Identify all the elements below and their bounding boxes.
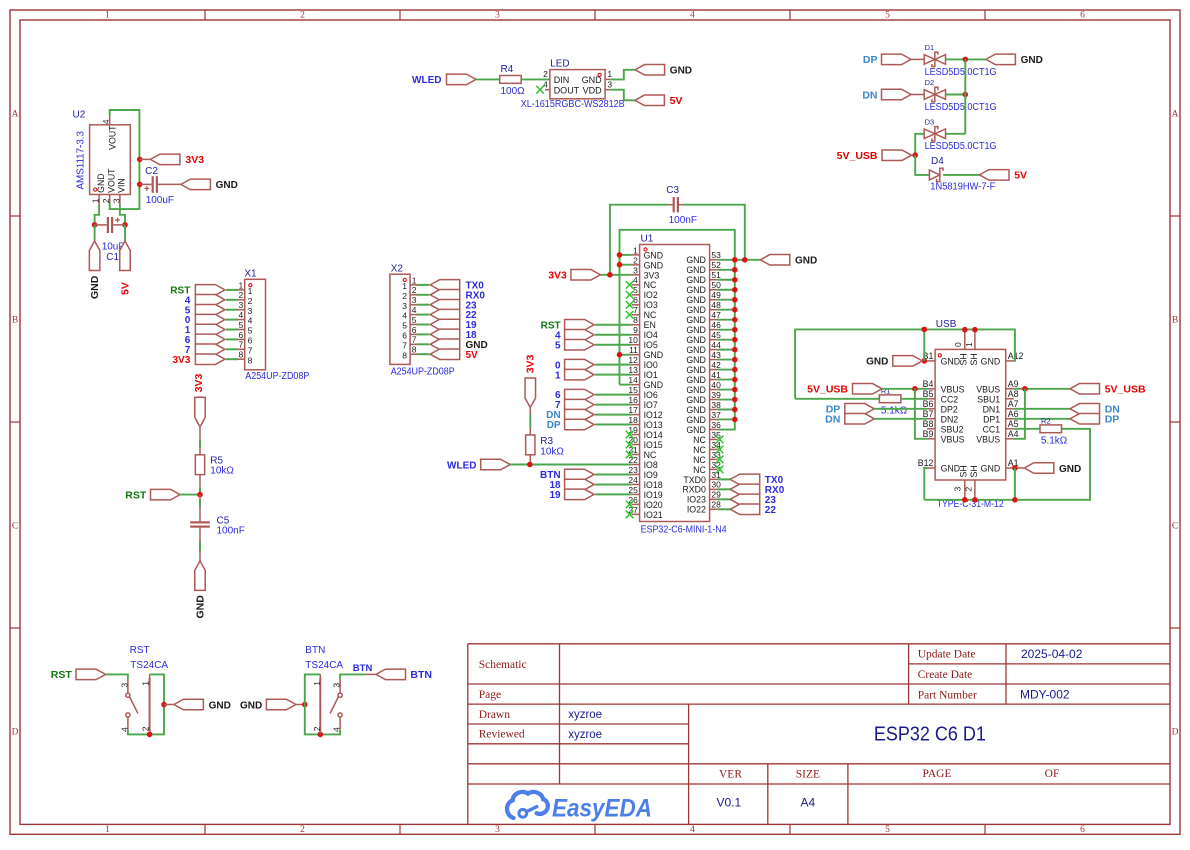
svg-text:2: 2	[101, 198, 111, 203]
svg-text:V0.1: V0.1	[717, 795, 742, 809]
EasyEDA logo	[507, 792, 652, 822]
USB pins with designators	[918, 330, 1024, 500]
svg-text:IO13: IO13	[644, 420, 663, 430]
X1 pins with numbers	[237, 280, 253, 365]
X2 net labels TX0 RX0 23 22 19 18 GND 5V	[466, 281, 488, 361]
wire A9 to 5V_USB flag	[1014, 388, 1070, 390]
svg-text:IO19: IO19	[644, 490, 663, 500]
svg-text:39: 39	[711, 390, 721, 400]
svg-text:IO1: IO1	[644, 370, 658, 380]
wire RST flag to switch pin3	[106, 674, 128, 679]
svg-text:TS24CA: TS24CA	[305, 660, 343, 671]
svg-text:Create Date: Create Date	[918, 669, 973, 681]
svg-text:7: 7	[238, 340, 243, 350]
svg-text:9: 9	[633, 325, 638, 335]
svg-text:GND: GND	[194, 595, 206, 619]
USB connector body TYPE-C-31-M-12	[935, 349, 1006, 480]
svg-text:10kΩ: 10kΩ	[210, 466, 234, 477]
wire WLED to R4	[476, 78, 500, 80]
svg-text:5: 5	[248, 326, 253, 336]
svg-text:GND: GND	[686, 325, 706, 335]
svg-text:1: 1	[607, 69, 612, 79]
RST net flag at divider	[125, 489, 180, 501]
svg-text:A4: A4	[1008, 429, 1019, 439]
svg-text:GND: GND	[686, 355, 706, 365]
svg-text:1: 1	[91, 198, 101, 203]
svg-text:IO21: IO21	[644, 510, 663, 520]
svg-text:12: 12	[628, 355, 638, 365]
svg-text:NC: NC	[693, 455, 706, 465]
svg-text:CC2: CC2	[941, 394, 959, 404]
svg-text:53: 53	[711, 250, 721, 260]
wire 3V3 flag to R3	[529, 408, 531, 436]
wire USB GND top bus	[795, 329, 1015, 398]
node RST switch pin2 junction	[147, 732, 153, 738]
U1 pins with numbers and names	[628, 245, 721, 519]
connector X1 A254UP-ZD08P body	[245, 279, 266, 370]
svg-text:WLED: WLED	[447, 460, 476, 471]
svg-text:D2: D2	[925, 78, 935, 87]
svg-text:IO6: IO6	[644, 390, 658, 400]
wire B12 to bottom bus	[924, 468, 927, 500]
diode D3 LESD5D5.0CT1G	[924, 127, 945, 141]
node B1 GND junction	[922, 358, 928, 364]
svg-text:GND: GND	[96, 173, 106, 193]
svg-text:2: 2	[300, 11, 305, 21]
3V3 net flag above R3	[525, 354, 537, 407]
wire D3 to 5V_USB	[915, 134, 924, 155]
svg-text:X2: X2	[391, 264, 404, 275]
svg-text:GND: GND	[795, 256, 817, 267]
svg-text:VOUT: VOUT	[106, 168, 116, 193]
svg-text:47: 47	[711, 310, 721, 320]
resistor R2 5.1kΩ	[1040, 425, 1062, 433]
net flag stack at U1 TXD0/RXD0/IO23/IO22	[730, 474, 760, 514]
svg-text:2: 2	[412, 285, 417, 295]
svg-text:4: 4	[101, 119, 111, 124]
svg-text:C: C	[12, 522, 18, 532]
svg-text:DIN: DIN	[554, 75, 570, 85]
wire C3 left to 3V3	[610, 205, 669, 275]
svg-text:IO20: IO20	[644, 500, 663, 510]
svg-text:3: 3	[412, 295, 417, 305]
svg-text:B7: B7	[923, 409, 934, 419]
svg-text:NC: NC	[644, 310, 657, 320]
svg-text:48: 48	[711, 300, 721, 310]
svg-text:A4: A4	[801, 795, 816, 809]
svg-text:NC: NC	[693, 465, 706, 475]
GND net flag at USB B1	[866, 356, 922, 368]
svg-text:GND: GND	[686, 385, 706, 395]
svg-text:1: 1	[238, 280, 243, 290]
svg-text:IO22: IO22	[687, 505, 706, 515]
wire A5 to R2	[1014, 428, 1040, 430]
svg-text:VOUT: VOUT	[107, 125, 117, 150]
wire 3V3 flag to R5	[199, 427, 201, 455]
svg-text:4: 4	[690, 825, 695, 835]
svg-text:44: 44	[711, 340, 721, 350]
wire R1 to B5	[901, 398, 927, 400]
svg-text:3: 3	[952, 487, 962, 492]
svg-text:6: 6	[1080, 11, 1085, 21]
svg-text:Update Date: Update Date	[918, 649, 976, 661]
svg-text:25: 25	[628, 485, 638, 495]
svg-text:SH: SH	[958, 353, 968, 365]
svg-text:GND: GND	[644, 250, 664, 260]
svg-text:8: 8	[402, 350, 407, 360]
svg-text:GND: GND	[686, 295, 706, 305]
svg-text:IO18: IO18	[644, 480, 663, 490]
svg-text:4: 4	[412, 305, 417, 315]
no-connect marks on U1	[626, 281, 724, 518]
svg-text:IO7: IO7	[644, 400, 658, 410]
svg-text:B9: B9	[923, 429, 934, 439]
wire WLED to U1 pin22	[510, 464, 631, 466]
wire DN to D2	[911, 94, 924, 96]
svg-text:RST: RST	[51, 669, 73, 681]
svg-text:36: 36	[711, 420, 721, 430]
svg-text:RST: RST	[125, 489, 147, 501]
svg-text:4: 4	[332, 727, 342, 732]
svg-text:GND: GND	[941, 464, 961, 474]
GND net flag at BTN switch	[240, 699, 296, 711]
wire 5V_USB to B4	[882, 388, 927, 390]
svg-text:DN: DN	[825, 414, 840, 426]
wires U1 flags to pins 15ff	[595, 395, 632, 425]
node RST junction	[197, 492, 203, 498]
svg-text:GND: GND	[686, 315, 706, 325]
wire LED VDD pin to 5V flag	[610, 90, 635, 101]
svg-text:TS24CA: TS24CA	[130, 660, 168, 671]
svg-text:8: 8	[412, 345, 417, 355]
svg-text:3: 3	[111, 198, 121, 203]
wire A12 to top bus	[1014, 360, 1015, 362]
wire A1 to GND flag	[1014, 467, 1025, 469]
svg-text:DP: DP	[547, 420, 561, 431]
3V3 net flag above R5	[193, 373, 205, 426]
resistor R3 10kΩ	[526, 435, 535, 455]
svg-text:23: 23	[628, 465, 638, 475]
node B4 junction	[912, 386, 918, 392]
svg-text:2: 2	[633, 255, 638, 265]
svg-text:A: A	[1172, 110, 1179, 120]
wire GND flag to BTN switch	[296, 704, 305, 706]
5V_USB net flag at B4	[807, 384, 882, 396]
svg-text:GND: GND	[686, 345, 706, 355]
net flag stack at U1 pins 15ff	[565, 389, 595, 429]
svg-text:5: 5	[885, 11, 890, 21]
svg-text:5.1kΩ: 5.1kΩ	[1041, 436, 1068, 447]
wire A9 to A4 VBUS tie	[1014, 389, 1025, 439]
svg-text:100nF: 100nF	[669, 215, 697, 226]
svg-text:11: 11	[629, 345, 638, 355]
svg-text:3V3: 3V3	[548, 270, 567, 282]
svg-text:XL-1615RGBC-WS2812B: XL-1615RGBC-WS2812B	[521, 99, 625, 110]
wire C3 right to GND	[683, 205, 745, 260]
svg-text:IO23: IO23	[687, 495, 706, 505]
svg-text:NC: NC	[693, 445, 706, 455]
WLED net flag at R3	[447, 459, 510, 471]
svg-text:14: 14	[628, 375, 638, 385]
svg-text:B: B	[12, 316, 18, 326]
wire left loop to R1	[795, 398, 879, 400]
3V3 net flag at U2 output	[140, 154, 205, 166]
svg-text:SH: SH	[958, 465, 968, 477]
svg-text:A254UP-ZD08P: A254UP-ZD08P	[245, 371, 309, 382]
diode D4 1N5819HW-7-F	[929, 168, 943, 181]
svg-text:42: 42	[711, 360, 721, 370]
svg-text:DN1: DN1	[983, 404, 1001, 414]
wire DP to B6	[874, 408, 927, 410]
svg-text:29: 29	[711, 490, 721, 500]
svg-text:5: 5	[412, 315, 417, 325]
svg-text:4: 4	[238, 310, 243, 320]
svg-text:2: 2	[238, 290, 243, 300]
wire USB bottom bus	[924, 429, 1090, 500]
svg-text:2025-04-02: 2025-04-02	[1021, 647, 1083, 661]
svg-text:B8: B8	[923, 419, 934, 429]
net flag stack at U1 pins 12ff	[565, 359, 595, 379]
svg-text:22: 22	[765, 505, 777, 516]
svg-text:GND: GND	[686, 425, 706, 435]
svg-text:D: D	[12, 728, 19, 738]
svg-text:U1: U1	[641, 234, 654, 245]
title block	[468, 644, 1170, 825]
svg-text:3: 3	[238, 300, 243, 310]
svg-text:7: 7	[412, 335, 417, 345]
BTN net flag	[376, 669, 432, 681]
wires X2 pins to flags	[417, 285, 429, 354]
svg-text:0: 0	[953, 342, 963, 347]
svg-text:3V3: 3V3	[644, 270, 660, 280]
node top bus B1 tap	[922, 327, 928, 333]
svg-text:B12: B12	[918, 458, 934, 468]
svg-text:13: 13	[628, 365, 638, 375]
svg-text:Part Number: Part Number	[918, 689, 977, 701]
svg-text:IO15: IO15	[644, 440, 663, 450]
svg-text:C1: C1	[106, 252, 119, 263]
5V net flag at D4	[980, 170, 1028, 182]
wires U1 flags to pins 12ff	[595, 365, 632, 375]
svg-text:IO4: IO4	[644, 330, 658, 340]
connector X2 A254UP-ZD08P body	[390, 274, 410, 364]
svg-text:IO5: IO5	[644, 340, 658, 350]
svg-text:2: 2	[300, 825, 305, 835]
svg-text:DP2: DP2	[941, 404, 958, 414]
svg-text:A6: A6	[1008, 409, 1019, 419]
svg-text:GND: GND	[670, 66, 692, 77]
svg-text:DP: DP	[863, 54, 878, 66]
wire D3 to GND rail	[946, 133, 966, 135]
svg-text:GND: GND	[686, 405, 706, 415]
svg-text:5V: 5V	[119, 282, 131, 295]
svg-text:GND: GND	[209, 700, 231, 711]
node 5V_USB junction	[912, 152, 918, 158]
svg-text:GND: GND	[644, 380, 664, 390]
svg-text:GND: GND	[686, 265, 706, 275]
svg-text:GND: GND	[686, 365, 706, 375]
svg-text:7: 7	[633, 305, 638, 315]
DP net flag at A6	[1070, 414, 1119, 426]
svg-text:5V_USB: 5V_USB	[837, 150, 878, 162]
svg-text:xyzroe: xyzroe	[568, 729, 602, 741]
svg-text:1: 1	[312, 681, 322, 686]
svg-text:NC: NC	[644, 280, 657, 290]
svg-text:D4: D4	[931, 156, 944, 167]
DP net flag at B6	[826, 404, 875, 416]
svg-text:GND: GND	[941, 356, 961, 366]
svg-text:38: 38	[711, 400, 721, 410]
svg-text:2: 2	[248, 296, 253, 306]
svg-text:31: 31	[711, 470, 721, 480]
diode D2 LESD5D5.0CT1G	[924, 87, 945, 101]
capacitor C3 100nF	[669, 197, 684, 212]
svg-text:18: 18	[628, 415, 638, 425]
svg-text:5: 5	[885, 825, 890, 835]
svg-text:6: 6	[633, 295, 638, 305]
svg-text:Reviewed: Reviewed	[479, 729, 525, 741]
svg-text:5: 5	[238, 320, 243, 330]
svg-text:DOUT: DOUT	[554, 86, 580, 96]
svg-text:10kΩ: 10kΩ	[540, 446, 564, 457]
node SH3 junction	[962, 497, 968, 503]
svg-text:LESD5D5.0CT1G: LESD5D5.0CT1G	[925, 67, 997, 78]
svg-text:USB: USB	[936, 319, 957, 330]
wires U1 flags to pins 23ff	[595, 474, 632, 494]
svg-text:MDY-002: MDY-002	[1020, 688, 1070, 702]
wire C1 right to 5V	[124, 225, 126, 241]
DN net flag at D2	[862, 89, 911, 101]
svg-text:1: 1	[105, 11, 110, 21]
svg-text:6: 6	[1080, 825, 1085, 835]
svg-text:D3: D3	[925, 117, 935, 126]
svg-text:VDD: VDD	[583, 86, 603, 96]
svg-text:A254UP-ZD08P: A254UP-ZD08P	[391, 366, 455, 377]
svg-text:3: 3	[332, 683, 342, 688]
svg-text:DP1: DP1	[983, 414, 1000, 424]
DN net flag at A7	[1070, 404, 1120, 416]
no-connect on LED DOUT	[536, 86, 544, 94]
svg-text:xyzroe: xyzroe	[568, 709, 602, 721]
svg-text:5V: 5V	[466, 350, 479, 361]
svg-text:40: 40	[711, 380, 721, 390]
wire C5 to GND flag	[199, 528, 201, 561]
svg-text:VIN: VIN	[116, 178, 126, 193]
svg-text:BTN: BTN	[305, 645, 325, 656]
svg-text:PAGE: PAGE	[923, 768, 952, 780]
svg-text:50: 50	[711, 280, 721, 290]
wire 5V input and VOUT loop of U2	[110, 110, 140, 209]
svg-text:TYPE-C-31-M-12: TYPE-C-31-M-12	[937, 499, 1004, 510]
svg-text:5: 5	[633, 285, 638, 295]
svg-text:D: D	[1172, 728, 1179, 738]
svg-text:4: 4	[248, 316, 253, 326]
svg-text:BTN: BTN	[353, 663, 373, 674]
svg-text:5: 5	[402, 321, 407, 331]
wire B4 to B9 VBUS tie	[915, 389, 927, 439]
wire A6 to DP flag	[1014, 418, 1070, 420]
svg-text:GND: GND	[582, 75, 603, 85]
svg-text:GND: GND	[686, 395, 706, 405]
node A9 junction	[1022, 386, 1028, 392]
wire RST flag to node	[180, 494, 200, 496]
switch SW1 TS24CA (RST)	[119, 674, 150, 734]
svg-text:RXD0: RXD0	[682, 485, 706, 495]
svg-text:5.1kΩ: 5.1kΩ	[881, 405, 908, 416]
wire C1 left to GND	[94, 225, 96, 241]
svg-text:GND: GND	[686, 255, 706, 265]
svg-text:LED: LED	[550, 59, 569, 70]
svg-text:4: 4	[633, 275, 638, 285]
node A1 junction	[1012, 465, 1018, 471]
net flag stack at U1 pins 8ff	[565, 320, 595, 350]
svg-text:GND: GND	[686, 375, 706, 385]
node SH1 junction	[972, 327, 978, 333]
wire to BTN flag	[365, 673, 376, 675]
GND net flag at RST switch	[174, 699, 231, 711]
GND net flag right of U1	[760, 255, 817, 267]
svg-text:GND: GND	[686, 335, 706, 345]
node C1 left junction	[92, 222, 98, 228]
svg-text:NC: NC	[693, 435, 706, 445]
svg-text:A: A	[12, 110, 19, 120]
wire BTN switch pin3 to flag	[340, 674, 365, 679]
svg-text:CC1: CC1	[983, 424, 1001, 434]
wire GND rail D1-D3	[964, 59, 966, 133]
node 3V3 junction at U2 output	[137, 157, 143, 163]
wire LED GND pin to flag	[610, 70, 635, 80]
node GND junction at C2	[137, 182, 143, 188]
5V net flag below C1	[119, 241, 131, 295]
svg-text:37: 37	[711, 410, 721, 420]
junction dots on U1 GND bus	[617, 252, 748, 422]
svg-text:EasyEDA: EasyEDA	[552, 794, 652, 822]
wire U2 pin3 to C1 right	[120, 205, 125, 225]
svg-text:GND: GND	[644, 350, 664, 360]
svg-text:3V3: 3V3	[525, 354, 537, 373]
WLED net flag (LED input)	[412, 74, 476, 86]
wire R5 to RST node	[199, 475, 201, 495]
svg-text:EN: EN	[644, 320, 656, 330]
wire 5V_USB to D4	[915, 155, 929, 175]
svg-text:45: 45	[711, 330, 721, 340]
svg-text:DP: DP	[1105, 414, 1120, 426]
svg-text:GND: GND	[686, 285, 706, 295]
svg-text:1: 1	[141, 681, 151, 686]
svg-text:OF: OF	[1045, 768, 1060, 780]
svg-text:1: 1	[555, 370, 561, 381]
wire BTN switch pins to GND	[305, 674, 340, 734]
wire D2 to GND rail	[946, 94, 966, 96]
svg-text:BTN: BTN	[410, 669, 432, 681]
svg-text:A9: A9	[1008, 379, 1019, 389]
svg-text:6: 6	[412, 325, 417, 335]
svg-text:GND: GND	[686, 305, 706, 315]
capacitor C1 10uF	[95, 217, 125, 233]
net flag stack at U1 pins 23ff	[565, 469, 595, 499]
svg-text:GND: GND	[981, 356, 1001, 366]
svg-text:2: 2	[402, 291, 407, 301]
wire DP to D1	[911, 58, 924, 60]
svg-text:2: 2	[964, 487, 974, 492]
svg-text:16: 16	[628, 395, 638, 405]
svg-text:3: 3	[248, 306, 253, 316]
DP net flag at D1	[863, 54, 911, 66]
U1 net labels at pins 12ff	[555, 360, 561, 381]
wire A7 to DN flag	[1014, 408, 1070, 410]
svg-text:C3: C3	[666, 185, 679, 196]
svg-text:41: 41	[711, 370, 721, 380]
